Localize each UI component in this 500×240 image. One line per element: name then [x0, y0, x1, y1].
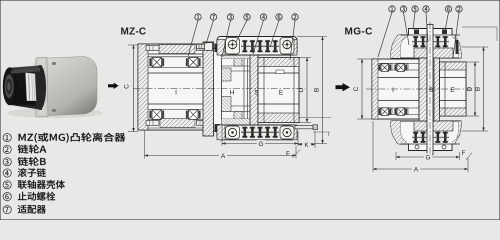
legend item 7: 适配器	[3, 205, 46, 214]
svg-text:B: B	[314, 88, 321, 92]
photo: black clutch cylinder	[3, 65, 46, 110]
MZ-C bearing bottom-left	[149, 111, 151, 119]
MG-C callout 6	[445, 12, 449, 31]
legend item 5: 联轴器壳体	[3, 180, 65, 189]
MG-C bearing top-right	[394, 65, 396, 71]
svg-text:C: C	[353, 86, 360, 91]
MG-C roller chain top	[412, 35, 449, 48]
MG-C callout 5	[413, 12, 415, 29]
legend item 4: 滚子链	[3, 168, 46, 177]
svg-text:G: G	[258, 141, 263, 148]
MG-C dimension G	[396, 152, 460, 161]
MZ-C dimension K	[298, 131, 315, 149]
MZ-C roller chain top	[241, 40, 279, 54]
MZ-C callout 7	[206, 20, 214, 44]
MG-C bearing bottom-right	[394, 109, 396, 115]
MG-C sprocket teeth bottom hatched	[414, 121, 453, 131]
photo shadow	[7, 108, 103, 118]
photo of cam clutch coupling: gray housing	[35, 57, 98, 118]
svg-text:B: B	[475, 87, 482, 91]
MZ-C adapter section H	[222, 53, 251, 126]
MG-C dimension A	[373, 121, 468, 173]
MZ-C housing bottom cover	[217, 125, 297, 140]
MZ-C stop bolt right	[295, 118, 331, 137]
svg-text:MZ-C: MZ-C	[121, 27, 147, 38]
MZ-C callout 6	[270, 20, 279, 47]
MG-C callout 2	[453, 12, 459, 58]
MG-C callout 1	[378, 12, 392, 57]
svg-text:I: I	[175, 90, 177, 97]
MG-C right hub E	[440, 62, 467, 116]
svg-text:A: A	[414, 166, 419, 173]
MG-C centerline	[366, 88, 472, 90]
svg-text:G: G	[425, 154, 430, 161]
MG-C callout 4	[426, 12, 428, 42]
MZ-C roller chain bottom	[241, 126, 279, 139]
MZ-C dimension G	[222, 125, 298, 148]
legend item 2: 链轮A	[3, 145, 46, 154]
svg-text:E: E	[279, 90, 284, 97]
MZ-C dimension D	[298, 58, 311, 123]
svg-text:K: K	[304, 143, 308, 149]
MG-C dimension C	[353, 59, 372, 119]
MZ-C callout 1	[188, 20, 198, 56]
MZ-C housing top cover	[217, 37, 297, 56]
MZ-C dimension A	[145, 130, 297, 160]
MZ-C dimension B	[297, 37, 327, 144]
svg-text:D: D	[467, 86, 474, 91]
MZ-C right hub E	[258, 58, 299, 123]
MZ-C grease nipple left	[197, 43, 218, 51]
svg-text:H: H	[230, 90, 235, 97]
MZ-C bearing bottom-right	[186, 111, 188, 119]
MG-C sprocket teeth top hatched	[414, 48, 453, 58]
black arrow pointing right (MZ-C to MG-C)	[336, 83, 351, 91]
svg-text:F: F	[462, 151, 466, 157]
MZ-C bearing top-left	[149, 58, 151, 66]
MG-C bell housing top	[391, 29, 461, 59]
svg-text:F: F	[286, 152, 290, 158]
legend item 1: MZ(或MG)凸轮离合器	[3, 133, 125, 143]
MZ-C callout 2	[290, 20, 295, 60]
MZ-C sprocket B plate with S	[250, 53, 259, 126]
legend item 6: 止动螺栓	[3, 192, 55, 201]
MG-C clutch left hub	[372, 59, 419, 119]
black arrow pointing right (photo to MZ-C)	[108, 83, 119, 89]
MZ-C callout 5	[236, 20, 247, 42]
MG-C bearing top-left	[378, 65, 380, 71]
MZ-C centerline	[133, 88, 305, 90]
legend item 3: 链轮B	[3, 157, 46, 166]
MG-C bell housing bottom	[391, 121, 461, 151]
svg-text:C: C	[124, 84, 131, 89]
MG-C roller chain bottom	[412, 131, 449, 144]
MG-C dimension B	[462, 47, 489, 131]
MZ-C clutch left hub body	[138, 44, 213, 130]
MZ-C sprocket A plate	[203, 42, 255, 136]
MG-C dimension D	[466, 62, 479, 116]
MZ-C dimension C	[124, 45, 139, 132]
svg-text:A: A	[221, 153, 226, 160]
MG-C bearing bottom-left	[378, 109, 380, 115]
MZ-C callout 4	[253, 20, 264, 54]
MG-C vertical centerline	[429, 22, 431, 157]
svg-text:MG-C: MG-C	[345, 27, 373, 38]
svg-text:I: I	[392, 87, 394, 94]
svg-text:E: E	[450, 87, 455, 94]
MZ-C callout 3	[222, 20, 231, 57]
MG-C leader line top right	[462, 27, 497, 41]
svg-text:S: S	[429, 87, 434, 94]
MG-C callout 3	[404, 12, 410, 45]
svg-text:D: D	[298, 87, 305, 92]
MG-C sprocket hub middle	[419, 25, 440, 155]
MZ-C bearing top-right	[186, 58, 188, 66]
